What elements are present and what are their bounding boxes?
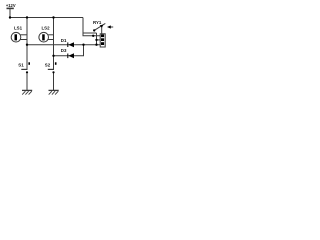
svg-text:LS2: LS2 [42, 25, 51, 30]
svg-text:RY1: RY1 [93, 20, 102, 25]
svg-text:+12V: +12V [6, 3, 16, 8]
svg-text:D3: D3 [61, 48, 67, 53]
svg-text:LS1: LS1 [14, 25, 23, 30]
svg-text:S1: S1 [18, 63, 24, 68]
svg-text:D1: D1 [61, 38, 67, 43]
svg-text:S2: S2 [45, 63, 51, 68]
